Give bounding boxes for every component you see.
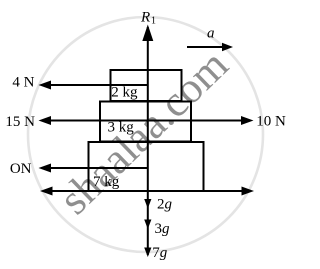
svg-text:4 N: 4 N (12, 75, 34, 91)
svg-text:7 kg: 7 kg (93, 174, 120, 190)
svg-text:7g: 7g (152, 245, 168, 261)
svg-text:shaalaa.com: shaalaa.com (50, 41, 237, 224)
svg-text:2 kg: 2 kg (111, 85, 138, 101)
svg-text:3g: 3g (155, 221, 171, 237)
svg-text:2g: 2g (157, 197, 173, 213)
svg-text:R: R (140, 10, 150, 26)
svg-text:3 kg: 3 kg (108, 120, 135, 136)
svg-text:15 N: 15 N (5, 114, 35, 130)
svg-text:a: a (207, 26, 215, 42)
svg-text:ON: ON (10, 161, 32, 177)
svg-text:1: 1 (151, 16, 156, 27)
svg-text:10 N: 10 N (256, 114, 286, 130)
